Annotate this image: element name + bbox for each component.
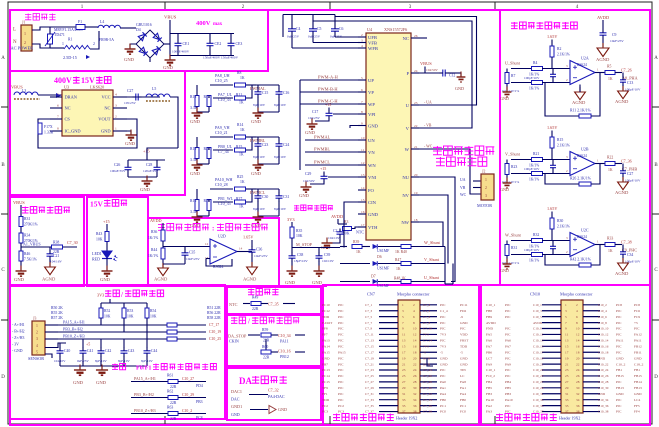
svg-text:R47: R47 [395,258,401,262]
svg-text:25: 25 [402,374,406,378]
svg-text:8pF/10V: 8pF/10V [253,155,266,159]
svg-text:24: 24 [576,368,580,372]
svg-text:+15: +15 [325,102,331,107]
svg-text:15: 15 [402,345,406,349]
svg-text:100uF/35V: 100uF/35V [110,169,126,173]
svg-text:C7_24: C7_24 [423,368,432,372]
svg-text:104/50V: 104/50V [303,179,315,183]
svg-text:F1: F1 [78,20,82,24]
svg-text:GND: GND [231,412,240,417]
svg-text:FF1: FF1 [322,392,328,396]
svg-text:PA4: PA4 [440,392,446,396]
svg-text:D6: D6 [377,255,382,259]
svg-text:FB9: FB9 [486,315,492,319]
svg-text:C10_1: C10_1 [533,303,542,307]
svg-text:VN: VN [368,150,375,155]
svg-text:FF4: FF4 [634,410,640,414]
svg-text:PJC: PJC [616,345,622,349]
svg-text:5: 5 [57,93,59,97]
svg-text:C28: C28 [146,163,152,167]
svg-text:C7_27: C7_27 [365,380,374,384]
svg-text:104/25V: 104/25V [308,116,320,120]
svg-text:31: 31 [565,392,569,396]
svg-text:PB5: PB5 [505,386,511,390]
svg-text:U3: U3 [64,85,69,90]
svg-text:PC2: PC2 [338,404,344,408]
svg-text:C7_28: C7_28 [423,380,432,384]
svg-text:1K: 1K [240,76,245,80]
svg-text:CKIN: CKIN [229,339,239,344]
svg-text:8pF/10V: 8pF/10V [253,207,266,211]
svg-text:C10_17: C10_17 [533,350,544,354]
svg-text:- 3V: - 3V [12,343,19,347]
svg-text:C17: C17 [312,110,318,114]
svg-text:36: 36 [413,404,417,408]
svg-text:Header 19X2: Header 19X2 [559,416,580,421]
svg-text:C10_21: C10_21 [215,130,228,135]
svg-text:PJC: PJC [440,374,446,378]
svg-text:NC: NC [65,106,71,111]
svg-text:12: 12 [413,333,417,337]
svg-text:15V: 15V [90,200,104,209]
svg-text:LKS620: LKS620 [90,85,104,90]
svg-text:FR9B-5A: FR9B-5A [99,38,114,42]
svg-text:1: 1 [24,31,26,36]
svg-text:FB15: FB15 [616,374,624,378]
svg-text:PA0: PA0 [440,380,446,384]
svg-text:C1_4: C1_4 [440,309,448,313]
svg-text:12: 12 [576,333,580,337]
svg-text:6: 6 [57,104,59,108]
svg-text:C7_31: C7_31 [365,392,374,396]
svg-text:PC1: PC1 [440,404,446,408]
svg-text:100pF/10V: 100pF/10V [524,167,540,171]
svg-text:+15: +15 [320,166,326,171]
svg-text:WN: WN [368,163,376,168]
svg-text:R53: R53 [127,309,133,313]
svg-text:- VB: - VB [424,124,432,128]
svg-text:C7_35: C7_35 [365,404,374,408]
svg-text:- Z+/H3: - Z+/H3 [12,336,24,340]
svg-text:C10_25: C10_25 [533,374,544,378]
svg-text:1K: 1K [239,205,244,209]
svg-text:PA9: PA9 [505,362,511,366]
svg-text:14: 14 [361,186,365,190]
svg-text:3: 3 [565,309,567,313]
svg-text:26: 26 [576,374,580,378]
svg-text:GND: GND [598,392,606,396]
svg-text:1K R40: 1K R40 [395,250,407,254]
svg-text:10K: 10K [96,238,103,242]
svg-text:GND: GND [368,212,379,217]
svg-text:FO: FO [368,188,375,193]
svg-text:C10_27: C10_27 [182,377,194,381]
svg-text:VTH: VTH [368,225,378,230]
svg-text:C18_2: C18_2 [634,362,644,366]
svg-text:1K/1%: 1K/1% [529,178,539,182]
svg-text:PJC: PJC [440,303,446,307]
svg-text:PC14: PC14 [322,374,330,378]
svg-text:C10_12: C10_12 [598,333,609,337]
svg-text:C7_1: C7_1 [365,303,372,307]
svg-text:UN: UN [368,138,375,143]
svg-text:14: 14 [413,339,417,343]
svg-text:15: 15 [361,198,365,202]
svg-text:22R: 22R [263,356,270,360]
svg-text:AC POWER: AC POWER [11,46,34,51]
svg-text:PWM-B-H: PWM-B-H [318,87,338,92]
svg-text:C10_2: C10_2 [182,409,192,413]
svg-text:R35: R35 [296,229,302,233]
svg-text:PJC: PJC [505,368,511,372]
svg-text:10uF/25V: 10uF/25V [254,254,268,258]
svg-text:PC1: PC1 [460,404,466,408]
svg-text:C7_5: C7_5 [365,315,372,319]
svg-text:16: 16 [576,345,580,349]
svg-text:0uF/25V: 0uF/25V [287,35,300,39]
svg-text:NV: NV [402,193,409,198]
svg-text:C10_27: C10_27 [533,380,544,384]
svg-text:1K: 1K [608,168,613,172]
svg-text:V_Shunt: V_Shunt [505,152,521,157]
svg-text:C10_31: C10_31 [533,392,544,396]
svg-text:20: 20 [413,356,417,360]
svg-text:GND: GND [634,392,642,396]
svg-text:13: 13 [402,339,406,343]
svg-text:A: A [654,56,658,61]
svg-text:C10_26: C10_26 [598,374,609,378]
svg-text:6: 6 [361,88,363,92]
svg-text:R38: R38 [53,241,59,245]
svg-text:CN7: CN7 [367,292,375,297]
svg-text:GND: GND [322,356,330,360]
svg-text:PA7: PA7 [505,345,511,349]
svg-text:C10_4: C10_4 [598,309,607,313]
svg-text:15: 15 [565,345,569,349]
svg-text:20: 20 [576,356,580,360]
svg-text:1.65V: 1.65V [547,206,557,211]
svg-text:17: 17 [402,350,406,354]
svg-text:DA: DA [239,376,252,386]
svg-text:R61: R61 [167,374,173,378]
svg-text:PA15: PA15 [338,350,346,354]
svg-text:PJC: PJC [460,327,466,331]
svg-text:R22: R22 [607,156,613,160]
svg-text:PB3: PB3 [505,392,511,396]
svg-text:2: 2 [24,40,26,45]
svg-text:3: 3 [115,104,117,108]
svg-text:PJC: PJC [338,386,344,390]
svg-text:104/16V: 104/16V [50,260,62,264]
svg-text:C34: C34 [627,253,633,257]
svg-text:NTC: NTC [229,302,238,307]
svg-text:16: 16 [413,345,417,349]
svg-text:150uF/400V 150uF/400V: 150uF/400V 150uF/400V [203,56,239,60]
svg-text:NTC: NTC [356,230,364,235]
svg-text:7.5K/1%: 7.5K/1% [24,258,37,262]
svg-text:GBU1016: GBU1016 [136,23,152,27]
svg-text:C10_10: C10_10 [598,327,609,331]
svg-text:PJC: PJC [338,315,344,319]
svg-text:CN10: CN10 [530,292,540,297]
svg-text:1K/1%: 1K/1% [529,259,539,263]
svg-text:FC2: FC2 [322,404,328,408]
svg-text:2: 2 [115,115,117,119]
svg-text:C10_38: C10_38 [598,410,609,414]
svg-text:C10_34: C10_34 [278,333,291,338]
svg-text:14: 14 [239,247,243,251]
svg-text:R54: R54 [150,309,156,313]
svg-text:PC12: PC12 [322,309,330,313]
svg-text:12: 12 [361,161,365,165]
svg-text:C10_2: C10_2 [598,303,607,307]
svg-text:Morpho connector: Morpho connector [560,292,593,297]
svg-text:C10_22: C10_22 [598,362,609,366]
svg-text:4: 4 [576,309,578,313]
svg-text:17: 17 [361,223,365,227]
svg-text:WP: WP [368,102,375,107]
svg-text:PJC: PJC [505,333,511,337]
svg-text:PC0: PC0 [440,410,446,414]
svg-text:C16: C16 [283,91,289,95]
svg-text:CE2: CE2 [215,42,222,46]
svg-text:R50 2K: R50 2K [51,306,63,310]
svg-text:31: 31 [402,392,406,396]
svg-text:J1: J1 [22,21,25,25]
svg-text:34: 34 [576,398,580,402]
svg-text:17: 17 [565,350,569,354]
svg-text:GND: GND [440,356,448,360]
svg-text:24: 24 [414,69,418,73]
svg-text:1.65V: 1.65V [243,235,253,240]
svg-text:2.1K/1%: 2.1K/1% [557,144,570,148]
svg-text:GND: GND [285,280,296,285]
svg-text:22: 22 [576,362,580,366]
svg-text:GND: GND [278,407,287,412]
svg-text:30: 30 [576,386,580,390]
svg-text:2: 2 [36,331,38,335]
svg-text:23: 23 [414,101,418,105]
svg-text:PJC: PJC [338,339,344,343]
svg-text:FA15: FA15 [322,350,330,354]
svg-text:Header 19X2: Header 19X2 [396,416,417,421]
svg-text:R19: R19 [190,147,196,151]
svg-text:R21: R21 [533,152,539,156]
svg-text:C4: C4 [296,27,301,31]
svg-text:2: 2 [93,42,95,46]
svg-text:8: 8 [361,110,363,114]
svg-text:C7_9: C7_9 [365,327,372,331]
svg-text:1K: 1K [356,250,361,254]
svg-text:9: 9 [565,327,567,331]
svg-text:32: 32 [576,392,580,396]
svg-text:32: 32 [413,392,417,396]
svg-text:C43: C43 [128,349,134,353]
svg-text:GND: GND [500,268,509,273]
svg-text:1.65V: 1.65V [547,125,557,130]
svg-text:23: 23 [565,368,569,372]
svg-text:C10_8: C10_8 [598,321,607,325]
svg-text:-9: -9 [460,315,463,319]
svg-text:FB0: FB0 [460,398,466,402]
svg-text:FA4: FA4 [460,392,466,396]
svg-text:TD471: TD471 [54,33,65,37]
svg-text:10K: 10K [150,315,157,319]
svg-text:C10_16: C10_16 [278,349,291,354]
svg-text:7: 7 [565,321,567,325]
svg-text:UA: UA [460,178,466,182]
svg-text:C7_14: C7_14 [423,339,432,343]
svg-text:105/25V: 105/25V [124,101,136,105]
svg-text:PC8: PC8 [634,303,640,307]
svg-text:1.65V: 1.65V [547,34,557,39]
svg-text:+5: +5 [86,342,90,347]
svg-text:U4: U4 [367,27,373,32]
svg-text:FA7: FA7 [486,345,492,349]
svg-text:GND: GND [96,380,107,385]
svg-text:FB3: FB3 [486,392,492,396]
svg-text:4: 4 [361,44,363,48]
svg-text:VFB: VFB [368,40,377,45]
svg-text:3: 3 [36,337,38,341]
svg-text:R11 2.1K/1%: R11 2.1K/1% [570,109,592,113]
svg-text:F0/F1: F0/F1 [136,365,151,372]
svg-text:AGND: AGND [615,99,629,104]
svg-text:XNS15572F6: XNS15572F6 [384,27,407,32]
svg-text:PJC: PJC [338,374,344,378]
svg-text:-5: -5 [423,350,426,354]
svg-text:30: 30 [413,386,417,390]
svg-text:22R: 22R [170,385,177,389]
svg-text:8pF/10V: 8pF/10V [253,103,266,107]
svg-text:1K: 1K [239,101,244,105]
svg-text:120uF/25V: 120uF/25V [143,169,159,173]
svg-text:8pF/10V: 8pF/10V [274,155,287,159]
svg-text:1K: 1K [608,249,613,253]
svg-text:GND: GND [500,96,509,101]
svg-text:GND: GND [140,187,151,192]
svg-text:C1_4: C1_4 [423,309,430,313]
svg-text:C7_35: C7_35 [268,302,279,307]
svg-text:21: 21 [414,145,418,149]
svg-text:3V3: 3V3 [97,293,104,298]
svg-text:GND: GND [440,362,448,366]
svg-text:AVDD: AVDD [331,214,343,219]
svg-text:PJC: PJC [505,309,511,313]
svg-text:10K: 10K [104,315,111,319]
svg-text:CS: CS [65,117,71,122]
svg-text:PJC: PJC [634,327,640,331]
svg-text:C10_21: C10_21 [533,362,544,366]
svg-text:C7_19: C7_19 [365,356,374,360]
svg-text:C10_34: C10_34 [598,398,609,402]
svg-text:6: 6 [413,315,415,319]
svg-text:PC8: PC8 [616,303,622,307]
svg-text:FB1: FB1 [616,368,622,372]
svg-text:N: N [13,40,17,45]
svg-text:AGND: AGND [615,271,629,276]
svg-text:PJC: PJC [505,315,511,319]
svg-text:C7_7: C7_7 [365,321,372,325]
svg-text:L: L [13,28,16,33]
svg-text:R39: R39 [353,240,359,244]
svg-text:GND: GND [190,171,201,176]
svg-text:- WC: - WC [424,145,433,149]
svg-text:RS624: RS624 [577,235,587,239]
svg-text:36: 36 [576,404,580,408]
svg-text:8pF/10V: 8pF/10V [118,359,130,363]
svg-text:33: 33 [565,398,569,402]
svg-text:C7_33: C7_33 [365,398,374,402]
svg-text:DAC1: DAC1 [231,389,242,394]
svg-text:C7_17: C7_17 [365,350,374,354]
svg-text:VB: VB [460,186,466,190]
svg-text:FND: FND [486,327,493,331]
svg-text:P: P [406,71,409,76]
svg-text:GND: GND [251,119,262,124]
svg-text:4: 4 [115,93,117,97]
svg-text:PJC: PJC [505,350,511,354]
svg-text:FB5: FB5 [486,386,492,390]
svg-text:C7_36: C7_36 [621,159,632,164]
svg-text:C7_25: C7_25 [365,374,374,378]
svg-text:FRST: FRST [460,339,469,343]
svg-text:US1MF: US1MF [377,284,389,288]
svg-text:C10_19: C10_19 [209,330,221,334]
svg-text:GND: GND [299,193,310,198]
svg-text:PA15_A+/H1: PA15_A+/H1 [134,376,156,381]
svg-text:GND: GND [163,65,174,70]
svg-text:1: 1 [115,127,117,131]
svg-text:7V3: 7V3 [423,333,429,337]
svg-text:13: 13 [361,173,365,177]
svg-text:PJC: PJC [338,309,344,313]
svg-text:VP: VP [368,90,374,95]
svg-text:C6: C6 [339,27,344,31]
svg-text:C10_23: C10_23 [533,368,544,372]
svg-text:PA11: PA11 [616,339,624,343]
svg-text:- A+/H1: - A+/H1 [12,323,25,327]
svg-text:VDD: VDD [460,333,468,337]
svg-text:VNI: VNI [368,175,377,180]
svg-text:PA6: PA6 [505,339,511,343]
svg-text:max: max [213,22,223,27]
svg-text:US1MF: US1MF [377,249,389,253]
svg-text:1K: 1K [396,267,401,271]
svg-text:U2D: U2D [218,234,226,239]
svg-text:C10_11: C10_11 [533,333,544,337]
svg-text:R46: R46 [24,252,30,256]
svg-text:9: 9 [361,122,363,126]
svg-text:PJC: PJC [440,368,446,372]
svg-text:PJC: PJC [616,333,622,337]
svg-text:2.5D-15: 2.5D-15 [63,55,77,60]
svg-text:RS624: RS624 [577,63,587,67]
svg-text:22R: 22R [170,417,177,421]
svg-text:AVDD: AVDD [533,321,543,325]
svg-text:FA6: FA6 [486,339,492,343]
svg-text:CIN: CIN [368,200,377,205]
svg-text:R49: R49 [252,296,258,300]
svg-text:PB3_B+/H2: PB3_B+/H2 [134,392,154,397]
svg-text:FC0: FC0 [460,410,466,414]
svg-text:PJC: PJC [440,315,446,319]
svg-text:R2: R2 [557,47,562,51]
svg-text:18pF/10V: 18pF/10V [294,259,308,263]
svg-text:AGND: AGND [596,57,610,62]
svg-text:PC13: PC13 [322,368,330,372]
svg-text:FC9: FC9 [634,315,640,319]
